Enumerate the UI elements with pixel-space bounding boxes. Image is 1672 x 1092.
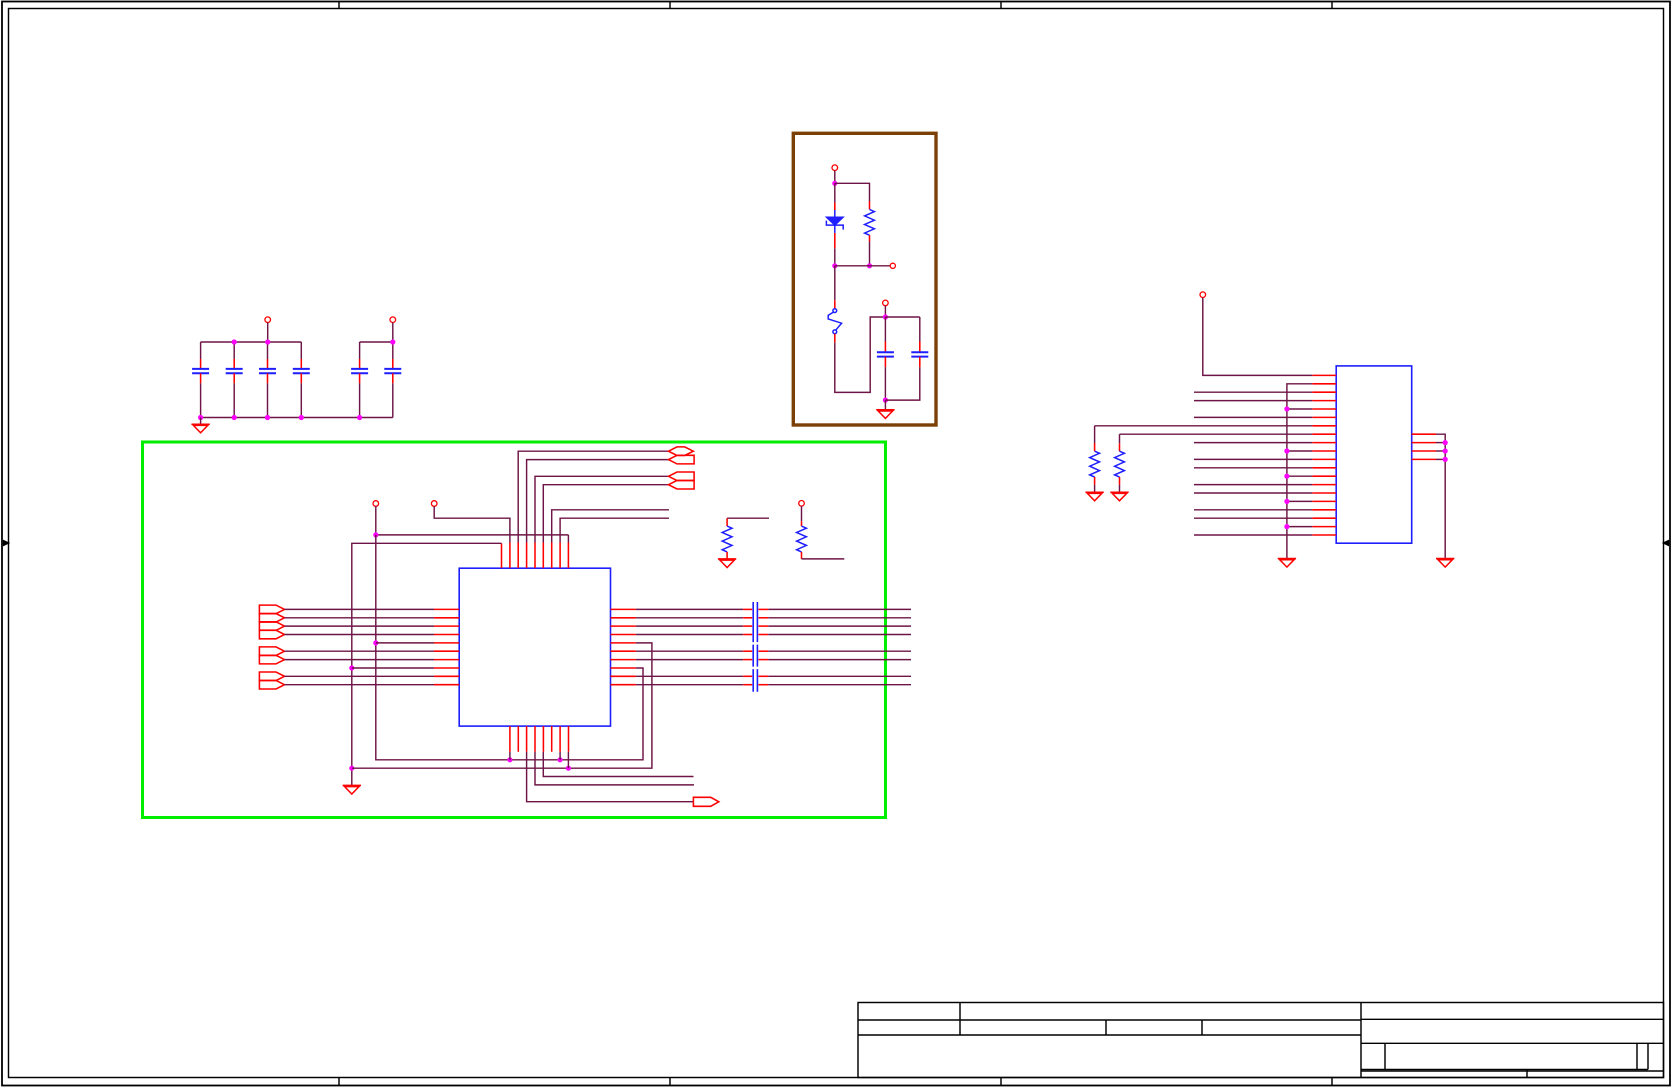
U1 top pin lead 9: [567, 543, 569, 569]
wire: [1094, 485, 1096, 492]
junction: [265, 339, 270, 344]
pin lead: [834, 203, 836, 211]
wire: [233, 383, 235, 417]
wire rail stub: [1287, 475, 1312, 477]
power pin VCC2: [390, 317, 396, 323]
U2 left pin lead 17: [1312, 509, 1336, 511]
border mid arrow left: [2, 540, 9, 545]
input port IN3: [259, 622, 284, 631]
capacitor C4: [293, 369, 310, 373]
U1 right pin lead 8: [611, 667, 636, 669]
pin lead: [834, 300, 836, 308]
U1 left pin lead 4: [434, 634, 459, 636]
U2 left pin lead 19: [1312, 526, 1336, 528]
wire: [300, 342, 302, 359]
wire IN6: [285, 650, 435, 652]
wire bus segment out: [768, 675, 911, 677]
wire IN9: [285, 675, 435, 677]
border mid arrow right: [1663, 540, 1670, 545]
pin lead: [884, 357, 886, 367]
wire U2 pin8 to R6: [1120, 433, 1313, 435]
pin lead: [1119, 477, 1121, 485]
U1 left pin lead 10: [434, 684, 459, 686]
border zone tick top: [338, 2, 340, 9]
U2 left pin lead 9: [1312, 442, 1336, 444]
wire: [300, 383, 302, 417]
wire U1 pin6 to port A4: [543, 485, 668, 543]
pin lead: [1119, 443, 1121, 451]
pin lead: [758, 659, 768, 661]
wire P1 stem: [375, 506, 377, 535]
wire U2 pin 17 stub: [1194, 509, 1312, 511]
title block strip tick: [1526, 1070, 1528, 1078]
wire: [567, 535, 569, 543]
resistor R6: [1115, 451, 1125, 477]
U2 left pin lead 6: [1312, 416, 1336, 418]
U1 right pin lead 5: [611, 642, 636, 644]
U1 bottom pin lead 3: [526, 726, 528, 752]
U1 top pin lead 8: [559, 543, 561, 569]
U1 bottom pin lead 1: [509, 726, 511, 752]
pin lead: [801, 552, 803, 559]
wire bus segment out: [768, 659, 911, 661]
pin lead: [758, 634, 768, 636]
power pin P7: [1200, 292, 1206, 298]
pin lead: [726, 518, 728, 526]
U1 right pin lead 1: [611, 608, 636, 610]
title block main divider: [1360, 1003, 1362, 1078]
U2 left pin lead 11: [1312, 458, 1336, 460]
wire bus segment out: [768, 684, 911, 686]
wire to R3: [835, 183, 870, 201]
wire IN1: [285, 608, 435, 610]
U1 left pin lead 7: [434, 659, 459, 661]
title block sub-box bottom: [1361, 1069, 1648, 1071]
wire P2 to U1 top pin 2: [434, 506, 510, 542]
wire U1 pin3 to port A1: [518, 451, 668, 542]
wire bus segment: [636, 608, 743, 610]
wire cap node: [885, 316, 919, 318]
wire rail stub: [1287, 408, 1312, 410]
wire GND net vertical: [352, 543, 502, 785]
wire bus segment out: [768, 617, 911, 619]
wire U1 pin7 stub: [552, 510, 669, 543]
port A4: [669, 480, 695, 489]
junction: [390, 339, 395, 344]
pin lead: [267, 359, 269, 369]
wire: [359, 383, 361, 417]
U2 left pin lead 15: [1312, 492, 1336, 494]
wire U2 pin 20 stub: [1194, 534, 1312, 536]
ground: [191, 424, 209, 433]
port A3: [669, 472, 695, 481]
title block right row line: [1361, 1018, 1664, 1020]
wire P1 to U1 top pin 9: [376, 534, 569, 536]
junction: [232, 415, 237, 420]
wire: [267, 342, 269, 359]
wire bus segment out: [768, 625, 911, 627]
wire: [392, 383, 394, 417]
wire rail stub: [1436, 458, 1445, 460]
wire U2 pin 15 stub: [1194, 492, 1312, 494]
pin lead: [869, 201, 871, 209]
wire U1 bottom pin3 to output port: [527, 752, 694, 802]
open pin: [890, 263, 895, 268]
wire bus segment: [636, 634, 743, 636]
U1 bottom pin lead 4: [534, 726, 536, 752]
ground: [1278, 559, 1296, 568]
junction: [1284, 474, 1289, 479]
wire IN4: [285, 634, 435, 636]
pin lead: [884, 342, 886, 353]
wire: [884, 306, 886, 317]
pin lead: [758, 617, 768, 619]
U1 left pin lead 8: [434, 667, 459, 669]
wire IN3: [285, 625, 435, 627]
wire U2 pin7 to R5: [1095, 425, 1313, 427]
pin lead: [801, 521, 803, 526]
wire GND rail to U1 right pin 5: [352, 643, 652, 768]
port A2: [669, 455, 695, 464]
power pin P5: [832, 165, 838, 171]
wire U2 pin 11 stub: [1194, 458, 1312, 460]
junction: [1284, 524, 1289, 529]
wire: [233, 342, 235, 359]
input port IN10: [259, 680, 284, 689]
input port IN9: [259, 672, 284, 681]
wire mid node: [835, 265, 890, 267]
title block cell divider: [1105, 1020, 1107, 1035]
wire U1 pin8 stub: [560, 518, 669, 542]
pin lead: [1094, 443, 1096, 451]
U1 bottom pin lead 7: [559, 726, 561, 752]
pin lead: [359, 359, 361, 369]
junction: [1443, 457, 1448, 462]
brown highlight box: [793, 133, 936, 425]
input port IN2: [259, 614, 284, 623]
title block sub-box divider: [1384, 1043, 1386, 1069]
resistor R1: [722, 526, 732, 552]
U2 left pin lead 2: [1312, 383, 1336, 385]
port A1: [669, 447, 694, 456]
U2 left pin lead 16: [1312, 500, 1336, 502]
U2 left pin lead 20: [1312, 534, 1336, 536]
U2 left pin lead 4: [1312, 400, 1336, 402]
wire bus segment: [636, 650, 743, 652]
pin lead: [726, 552, 728, 559]
border zone tick bottom: [669, 1078, 671, 1086]
title block sub-box edge: [1647, 1043, 1649, 1069]
input port IN4: [259, 630, 284, 639]
junction: [299, 415, 304, 420]
wire U1 bottom pin5 stub: [543, 752, 693, 777]
capacitor C6: [384, 369, 401, 373]
wire U2 right rail: [1436, 434, 1445, 558]
U1 right pin lead 10: [611, 684, 636, 686]
pin lead: [919, 342, 921, 353]
wire bus segment out: [768, 634, 911, 636]
wire: [834, 266, 836, 301]
power pin P4: [799, 501, 805, 507]
wire cap bank bottom rail: [201, 417, 393, 419]
series capacitor bank plates: [752, 602, 754, 692]
junction: [883, 314, 888, 319]
wire P1 to U1 left pin 5: [376, 642, 434, 644]
title block frame: [858, 1003, 1664, 1078]
wire U1 bottom pin4 stub: [535, 752, 694, 785]
U1 bottom pin lead 2: [517, 726, 519, 752]
junction: [265, 415, 270, 420]
wire: [267, 383, 269, 417]
pin lead: [743, 617, 752, 619]
wire IN2: [285, 617, 435, 619]
pin lead: [392, 373, 394, 383]
pin lead: [1094, 477, 1096, 485]
U2 left pin lead 12: [1312, 467, 1336, 469]
junction: [1284, 448, 1289, 453]
pin lead: [200, 359, 202, 369]
power pin P1: [373, 501, 379, 507]
resistor R3: [865, 209, 875, 235]
ground: [1085, 492, 1103, 501]
pin lead: [743, 650, 752, 652]
wire U2 pin 3 stub: [1194, 391, 1312, 393]
wire R1 top: [727, 517, 769, 519]
wire bus segment: [636, 659, 743, 661]
junction: [1284, 406, 1289, 411]
junction: [198, 415, 203, 420]
wire bus segment: [636, 675, 743, 677]
wire GND to U1 left pin 8: [352, 667, 434, 669]
U2 right pin lead 1: [1412, 433, 1436, 435]
junction: [349, 665, 354, 670]
title block strip line: [1361, 1070, 1664, 1072]
output port OUT1: [693, 797, 718, 806]
wire: [1119, 485, 1121, 492]
U2 left pin lead 18: [1312, 517, 1336, 519]
capacitor C8: [911, 352, 928, 356]
U2 right pin lead 3: [1412, 450, 1436, 452]
wire: [884, 317, 886, 342]
border zone tick bottom: [338, 1078, 340, 1086]
wire: [801, 506, 803, 521]
wire: [834, 171, 836, 184]
title block divider: [959, 1003, 961, 1036]
U2 left pin lead 3: [1312, 391, 1336, 393]
junction: [883, 398, 888, 403]
power pin P6: [883, 300, 889, 306]
wire: [1119, 434, 1121, 443]
wire: [1094, 426, 1096, 443]
ground: [343, 785, 361, 794]
wire R2 bottom: [802, 558, 845, 560]
wire: [884, 400, 886, 410]
capacitor C5: [351, 369, 368, 373]
pin lead: [743, 634, 752, 636]
U1 right pin lead 2: [611, 617, 636, 619]
wire U2 pin 12 stub: [1194, 467, 1312, 469]
wire bus segment: [636, 625, 743, 627]
U2 left pin lead 7: [1312, 425, 1336, 427]
title block row line: [858, 1019, 1361, 1021]
ground: [1110, 492, 1128, 501]
wire bus segment out: [768, 650, 911, 652]
wire: [200, 342, 202, 359]
ic U1 body: [459, 568, 610, 726]
U2 right pin lead 4: [1412, 458, 1436, 460]
pin lead: [300, 373, 302, 383]
U1 left pin lead 5: [434, 642, 459, 644]
pin lead: [834, 334, 836, 343]
wire: [885, 367, 919, 400]
pin lead: [758, 675, 768, 677]
wire: [869, 242, 871, 266]
wire rail stub: [1436, 450, 1445, 452]
pin lead: [919, 357, 921, 367]
pin lead: [743, 659, 752, 661]
wire U1 pin5 to port A3: [535, 476, 669, 542]
U1 right pin lead 3: [611, 625, 636, 627]
wire P7 to U2 pin1: [1203, 298, 1313, 376]
U1 bottom pin lead 8: [568, 726, 570, 752]
input port IN6: [259, 647, 284, 656]
power pin P2: [431, 501, 437, 507]
wire cap bank top rail 2: [360, 341, 393, 343]
junction: [558, 757, 563, 762]
U1 top pin lead 5: [534, 543, 536, 569]
pin lead: [359, 373, 361, 383]
pin lead: [758, 608, 768, 610]
wire U2 pin 18 stub: [1194, 517, 1312, 519]
U1 top pin lead 6: [542, 543, 544, 569]
wire rail stub: [1436, 442, 1445, 444]
U1 bottom pin lead 5: [542, 726, 544, 752]
resistor R2: [797, 526, 807, 552]
ground: [718, 559, 736, 568]
U1 right pin lead 4: [611, 634, 636, 636]
pin lead: [233, 373, 235, 383]
wire IN10: [285, 684, 435, 686]
pin lead: [743, 684, 752, 686]
title block row line: [858, 1034, 1361, 1036]
junction: [1443, 440, 1448, 445]
capacitor C2: [226, 369, 243, 373]
border zone tick top: [669, 2, 671, 9]
resistor R4: [828, 309, 841, 334]
U1 top pin lead 4: [526, 543, 528, 569]
junction: [349, 766, 354, 771]
wire U2 gnd rail: [1287, 384, 1312, 559]
junction: [357, 415, 362, 420]
pin lead: [743, 675, 752, 677]
U1 top pin lead 3: [517, 543, 519, 569]
junction: [832, 263, 837, 268]
wire U2 pin 6 stub: [1194, 416, 1312, 418]
junction: [867, 263, 872, 268]
pin lead: [758, 684, 768, 686]
capacitor C3: [259, 369, 276, 373]
pin lead: [743, 625, 752, 627]
junction: [1284, 499, 1289, 504]
U1 right pin lead 6: [611, 650, 636, 652]
wire: [884, 367, 886, 400]
U1 right pin lead 9: [611, 675, 636, 677]
U2 left pin lead 8: [1312, 433, 1336, 435]
wire: [567, 752, 569, 768]
wire: [834, 248, 836, 265]
wire ground stem: [200, 418, 202, 425]
junction: [507, 757, 512, 762]
wire VCC2 stem: [392, 323, 394, 343]
wire: [392, 342, 394, 359]
pin lead: [743, 608, 752, 610]
U1 top pin lead 7: [551, 543, 553, 569]
border zone tick top: [1000, 2, 1002, 9]
wire: [200, 383, 202, 417]
U2 right pin lead 2: [1412, 442, 1436, 444]
capacitor C1: [192, 369, 209, 373]
title block right row line: [1361, 1042, 1664, 1044]
input port IN7: [259, 655, 284, 664]
title block sub-box divider: [1636, 1043, 1638, 1069]
pin lead: [392, 359, 394, 369]
junction: [566, 766, 571, 771]
pin lead: [834, 233, 836, 248]
U1 bottom pin lead 6: [551, 726, 553, 752]
U1 left pin lead 3: [434, 625, 459, 627]
U2 left pin lead 14: [1312, 484, 1336, 486]
wire R4 to node: [835, 317, 886, 392]
wire IN7: [285, 659, 435, 661]
U1 top pin lead 2: [509, 543, 511, 569]
wire: [509, 752, 511, 760]
wire U2 pin 4 stub: [1194, 400, 1312, 402]
pin lead: [869, 235, 871, 241]
junction: [232, 339, 237, 344]
wire: [559, 752, 561, 760]
border zone tick top: [1331, 2, 1333, 9]
pin lead: [758, 650, 768, 652]
junction: [1443, 448, 1448, 453]
U1 left pin lead 2: [434, 617, 459, 619]
resistor R5: [1090, 451, 1100, 477]
wire: [359, 342, 361, 359]
wire P1 net rail: [376, 535, 643, 760]
wire bus segment: [636, 617, 743, 619]
wire U2 pin 14 stub: [1194, 484, 1312, 486]
pin lead: [758, 625, 768, 627]
U1 top pin lead 1: [501, 543, 503, 568]
wire VCC1 stem: [267, 323, 269, 343]
wire: [919, 317, 921, 342]
U1 left pin lead 6: [434, 650, 459, 652]
U2 left pin lead 13: [1312, 475, 1336, 477]
power pin VCC1: [265, 317, 271, 323]
border zone tick bottom: [1000, 1078, 1002, 1086]
wire rail stub: [1287, 450, 1312, 452]
U1 left pin lead 9: [434, 675, 459, 677]
U1 left pin lead 1: [434, 608, 459, 610]
U1 right pin lead 7: [611, 659, 636, 661]
wire U1 pin4 to port A2: [527, 460, 669, 543]
wire bus segment out: [768, 608, 911, 610]
ic U2 body: [1336, 366, 1412, 543]
wire cap bank top rail 1: [201, 341, 302, 343]
wire: [834, 183, 836, 202]
U2 left pin lead 1: [1312, 374, 1336, 376]
junction: [373, 532, 378, 537]
junction: [373, 640, 378, 645]
